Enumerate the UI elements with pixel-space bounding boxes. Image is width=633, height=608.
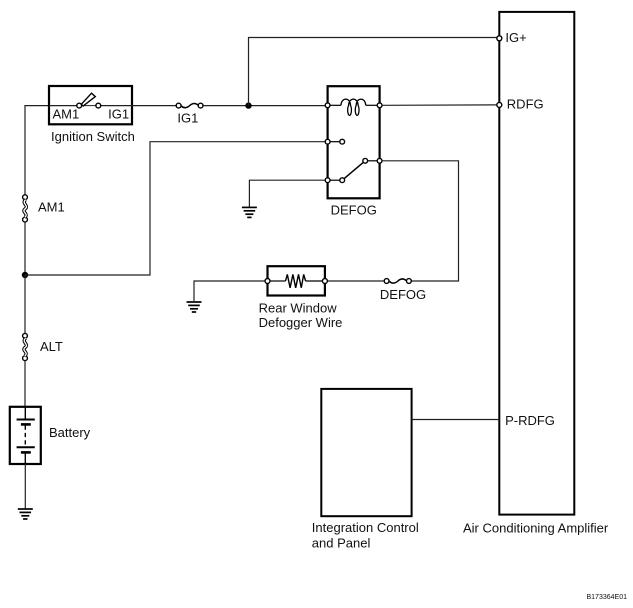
- air conditioning amplifier box: [463, 12, 609, 536]
- wire DEFOG fuse to defogger wire unit: [328, 280, 384, 282]
- battery: [10, 407, 91, 464]
- fuse IG1: [176, 103, 203, 125]
- integration control and panel box: [312, 389, 419, 551]
- svg-text:P-RDFG: P-RDFG: [505, 413, 555, 428]
- node junction left trunk: [22, 272, 28, 278]
- wire junction to relay fixed contact: [25, 142, 325, 275]
- terminal IG+: [497, 36, 502, 41]
- relay fixed contact: [325, 139, 344, 144]
- svg-text:Ignition Switch: Ignition Switch: [51, 129, 135, 144]
- wire AM1 fuse to junction: [24, 222, 26, 275]
- relay coil: [325, 99, 382, 115]
- svg-text:IG1: IG1: [108, 106, 129, 121]
- relay common contact: [325, 178, 344, 183]
- wire battery to ground: [24, 464, 26, 509]
- terminal RDFG: [497, 102, 502, 107]
- wire ignition switch AM1 to left trunk: [25, 106, 49, 195]
- relay switch arm and output contact: [344, 158, 382, 178]
- svg-text:ALT: ALT: [40, 339, 63, 354]
- svg-text:AM1: AM1: [53, 106, 80, 121]
- ground relay common: [242, 207, 257, 217]
- ground below battery: [18, 509, 33, 519]
- ignition switch box: [49, 86, 135, 144]
- svg-text:Integration Control: Integration Control: [312, 520, 419, 535]
- fuse AM1: [23, 195, 65, 222]
- wire defogger unit to ground: [194, 281, 265, 301]
- node junction IG1/IG+: [245, 102, 251, 108]
- wire ALT fuse to battery: [24, 361, 26, 407]
- svg-text:B173364E01: B173364E01: [587, 594, 628, 601]
- svg-text:IG+: IG+: [505, 30, 526, 45]
- svg-text:Defogger Wire: Defogger Wire: [259, 315, 343, 330]
- wire junction down to ALT fuse: [24, 275, 26, 333]
- svg-text:IG1: IG1: [177, 110, 198, 125]
- wire ignition switch to IG1 fuse: [132, 105, 176, 107]
- svg-text:Battery: Battery: [49, 425, 91, 440]
- wire IG1 fuse to relay coil: [203, 105, 325, 107]
- wire integration panel to P-RDFG: [412, 419, 500, 421]
- svg-text:Air Conditioning Amplifier: Air Conditioning Amplifier: [463, 521, 609, 536]
- ground defogger: [187, 302, 202, 312]
- svg-text:AM1: AM1: [38, 200, 65, 215]
- rear window defogger wire (resistor): [259, 266, 343, 330]
- svg-text:Rear Window: Rear Window: [259, 301, 338, 316]
- svg-text:and Panel: and Panel: [312, 536, 371, 551]
- wire junction to IG+ terminal: [249, 38, 497, 106]
- switch lever: [81, 93, 95, 106]
- wire relay coil to RDFG terminal: [382, 104, 496, 106]
- resistor zigzag: [286, 274, 306, 287]
- fuse ALT: [23, 333, 63, 360]
- svg-text:DEFOG: DEFOG: [331, 203, 377, 218]
- relay DEFOG box: [328, 86, 380, 198]
- wire relay output to DEFOG fuse: [382, 161, 458, 281]
- svg-text:RDFG: RDFG: [507, 97, 544, 112]
- svg-text:DEFOG: DEFOG: [380, 287, 426, 302]
- fuse DEFOG: [380, 279, 426, 302]
- wire relay common to ground: [249, 180, 325, 206]
